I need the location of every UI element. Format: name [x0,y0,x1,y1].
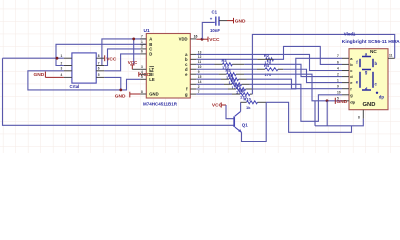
power port VCC at switch right pin1 [104,55,106,61]
svg-text:2: 2 [337,73,339,77]
svg-text:1: 1 [61,54,63,58]
svg-text:8: 8 [358,115,360,119]
svg-text:VCC: VCC [106,57,117,63]
junction rail [119,89,122,92]
wire R9 up over to display NC pin [252,34,394,94]
switch S1 body [72,53,96,83]
svg-text:LT: LT [149,67,154,72]
svg-text:7: 7 [98,61,100,65]
svg-text:Vled1: Vled1 [344,32,356,37]
svg-text:GND: GND [115,93,126,99]
svg-text:VDD: VDD [179,37,188,42]
svg-text:U1: U1 [144,28,150,34]
svg-text:8: 8 [98,54,100,58]
junction dp [326,99,329,102]
power port GND at dp pin [334,98,336,104]
svg-text:5: 5 [98,73,100,77]
resistor R8 [228,88,254,91]
svg-text:1: 1 [337,79,339,83]
svg-text:6: 6 [141,50,143,54]
svg-text:2: 2 [61,61,63,65]
svg-text:NC: NC [370,49,377,54]
svg-text:7: 7 [337,54,339,58]
resistor R7 [224,83,250,86]
svg-text:7: 7 [198,90,200,94]
svg-text:2: 2 [198,85,200,89]
wire R4 to display pin e [283,69,342,82]
svg-text:2: 2 [141,45,143,49]
wire switch pin1 row [3,57,64,59]
svg-text:D: D [149,52,152,57]
wire row d to R4 [196,68,257,70]
resistor R10 [241,101,267,104]
svg-text:11: 11 [389,53,393,57]
switch pins right [96,58,104,77]
svg-text:dp: dp [350,99,355,104]
wire row 14 to R7 [196,83,224,85]
resistor R3 [215,63,245,66]
svg-text:b: b [375,61,378,66]
resistor R5 [219,73,244,76]
svg-text:R6: R6 [228,73,234,78]
svg-text:GND: GND [34,72,45,78]
svg-text:3: 3 [141,65,143,69]
wire from IC pin B down to pin1 junction [56,44,146,65]
svg-text:10: 10 [198,65,202,69]
svg-text:C1: C1 [212,10,218,15]
bottom rail A to display GND stub [315,119,363,126]
wire switch right pin4 to rail [104,77,121,90]
wire VDD pin to VCC port with junction [196,38,207,40]
svg-text:7: 7 [141,35,143,39]
svg-text:Kingbright SC56-11 HWA: Kingbright SC56-11 HWA [342,39,400,45]
display LED1 body [349,49,388,110]
wire row b to R2 [196,58,257,60]
wire VCC to Q1 [226,105,234,119]
wire row g to R9 [196,93,232,95]
wire C1 branch [202,22,215,39]
resistor R9 [232,93,252,96]
wire switch pin3 loop to rail and LE [28,71,140,90]
svg-text:11: 11 [198,60,202,64]
svg-text:4: 4 [61,73,63,77]
svg-text:b: b [185,57,188,62]
wire C1 to GND port [219,20,227,22]
display NC pin [388,57,395,59]
svg-text:6: 6 [337,60,339,64]
svg-text:g: g [185,92,188,97]
IC pins left [140,39,146,94]
wire dp drops to bottom rail [314,101,316,126]
display pins left [342,58,349,101]
svg-text:R10: R10 [244,96,252,101]
svg-text:C: C [149,47,152,52]
svg-text:R9: R9 [239,88,245,93]
svg-text:LE: LE [149,77,155,82]
svg-text:5: 5 [141,75,143,79]
resistor R6 [221,78,247,81]
svg-text:VCC: VCC [209,37,220,43]
wire switch right pin3 to IC D [104,54,140,71]
svg-text:GND: GND [363,102,376,108]
svg-text:10nF: 10nF [210,28,220,33]
wire row a to display pin c [196,54,342,70]
svg-text:BI: BI [149,72,153,77]
junction IC pin A [132,38,135,41]
svg-text:14: 14 [198,80,202,84]
svg-text:d: d [185,67,188,72]
wire A junction to LT VCC port [133,39,135,65]
svg-text:R4: R4 [264,63,270,68]
wire long left loop to Q1 base [3,58,234,125]
switch pins left [64,58,72,77]
svg-text:Q1: Q1 [242,122,249,127]
svg-text:8: 8 [141,90,143,94]
wire emitter loop to R10 right [242,102,267,141]
IC U1 body [146,34,190,99]
svg-text:1k: 1k [246,105,251,110]
svg-text:12: 12 [198,55,202,59]
junction switch pin1 [56,57,59,60]
svg-text:9: 9 [198,70,200,74]
svg-text:R3: R3 [222,58,228,63]
svg-text:15: 15 [198,75,202,79]
wire R10 to bottom rails staircase [266,102,351,132]
wire R6 to display pin f [247,79,343,89]
display bottom GND pin [362,110,364,119]
wire switch right pin2 to IC C [104,49,140,66]
wire R7 dip under display to pin g [250,84,342,121]
svg-text:GND: GND [235,18,246,24]
resistor R4 [257,68,283,71]
svg-text:g: g [365,70,368,75]
svg-text:4: 4 [337,66,339,70]
svg-text:dp: dp [379,95,385,100]
wire IC A row with left drop [102,39,146,66]
svg-text:R7: R7 [231,78,237,83]
svg-text:3: 3 [61,67,63,71]
overlines LT BI [149,66,154,68]
transistor Q1 [234,111,242,132]
7-segment digit [360,57,373,91]
resistor R2 [257,58,273,61]
wire row c to R3 [196,63,214,65]
svg-text:M74HC4511B1R: M74HC4511B1R [143,102,178,107]
wire row f to R8 [196,88,228,90]
svg-text:4: 4 [141,70,143,74]
svg-text:Crtal: Crtal [70,84,80,89]
svg-text:10: 10 [337,91,341,95]
svg-text:1: 1 [141,40,143,44]
svg-text:GND: GND [149,92,158,97]
svg-text:R8: R8 [235,83,241,88]
svg-text:16: 16 [194,35,198,39]
svg-text:13: 13 [198,50,202,54]
wire collector up to R10 [240,102,242,111]
power port VCC at VDD [207,37,209,42]
svg-text:6: 6 [98,67,100,71]
wire R5 to display pin dp [244,74,342,101]
svg-text:GND: GND [337,99,348,105]
svg-text:d: d [365,87,368,92]
svg-text:9: 9 [337,85,339,89]
svg-text:A: A [149,37,152,42]
capacitor C1 [216,17,219,26]
wire R3 to display pin d [244,64,342,76]
wire row 15 to R6 [196,78,221,80]
wire R2 up over to display pin b [274,46,343,64]
svg-text:R5: R5 [226,68,232,73]
wire R8 up to display pin a [254,58,342,89]
IC pins right [190,39,196,94]
wire row e to R5 [196,73,218,75]
power port VCC at BI pin [138,72,140,77]
svg-text:R2: R2 [264,53,270,58]
